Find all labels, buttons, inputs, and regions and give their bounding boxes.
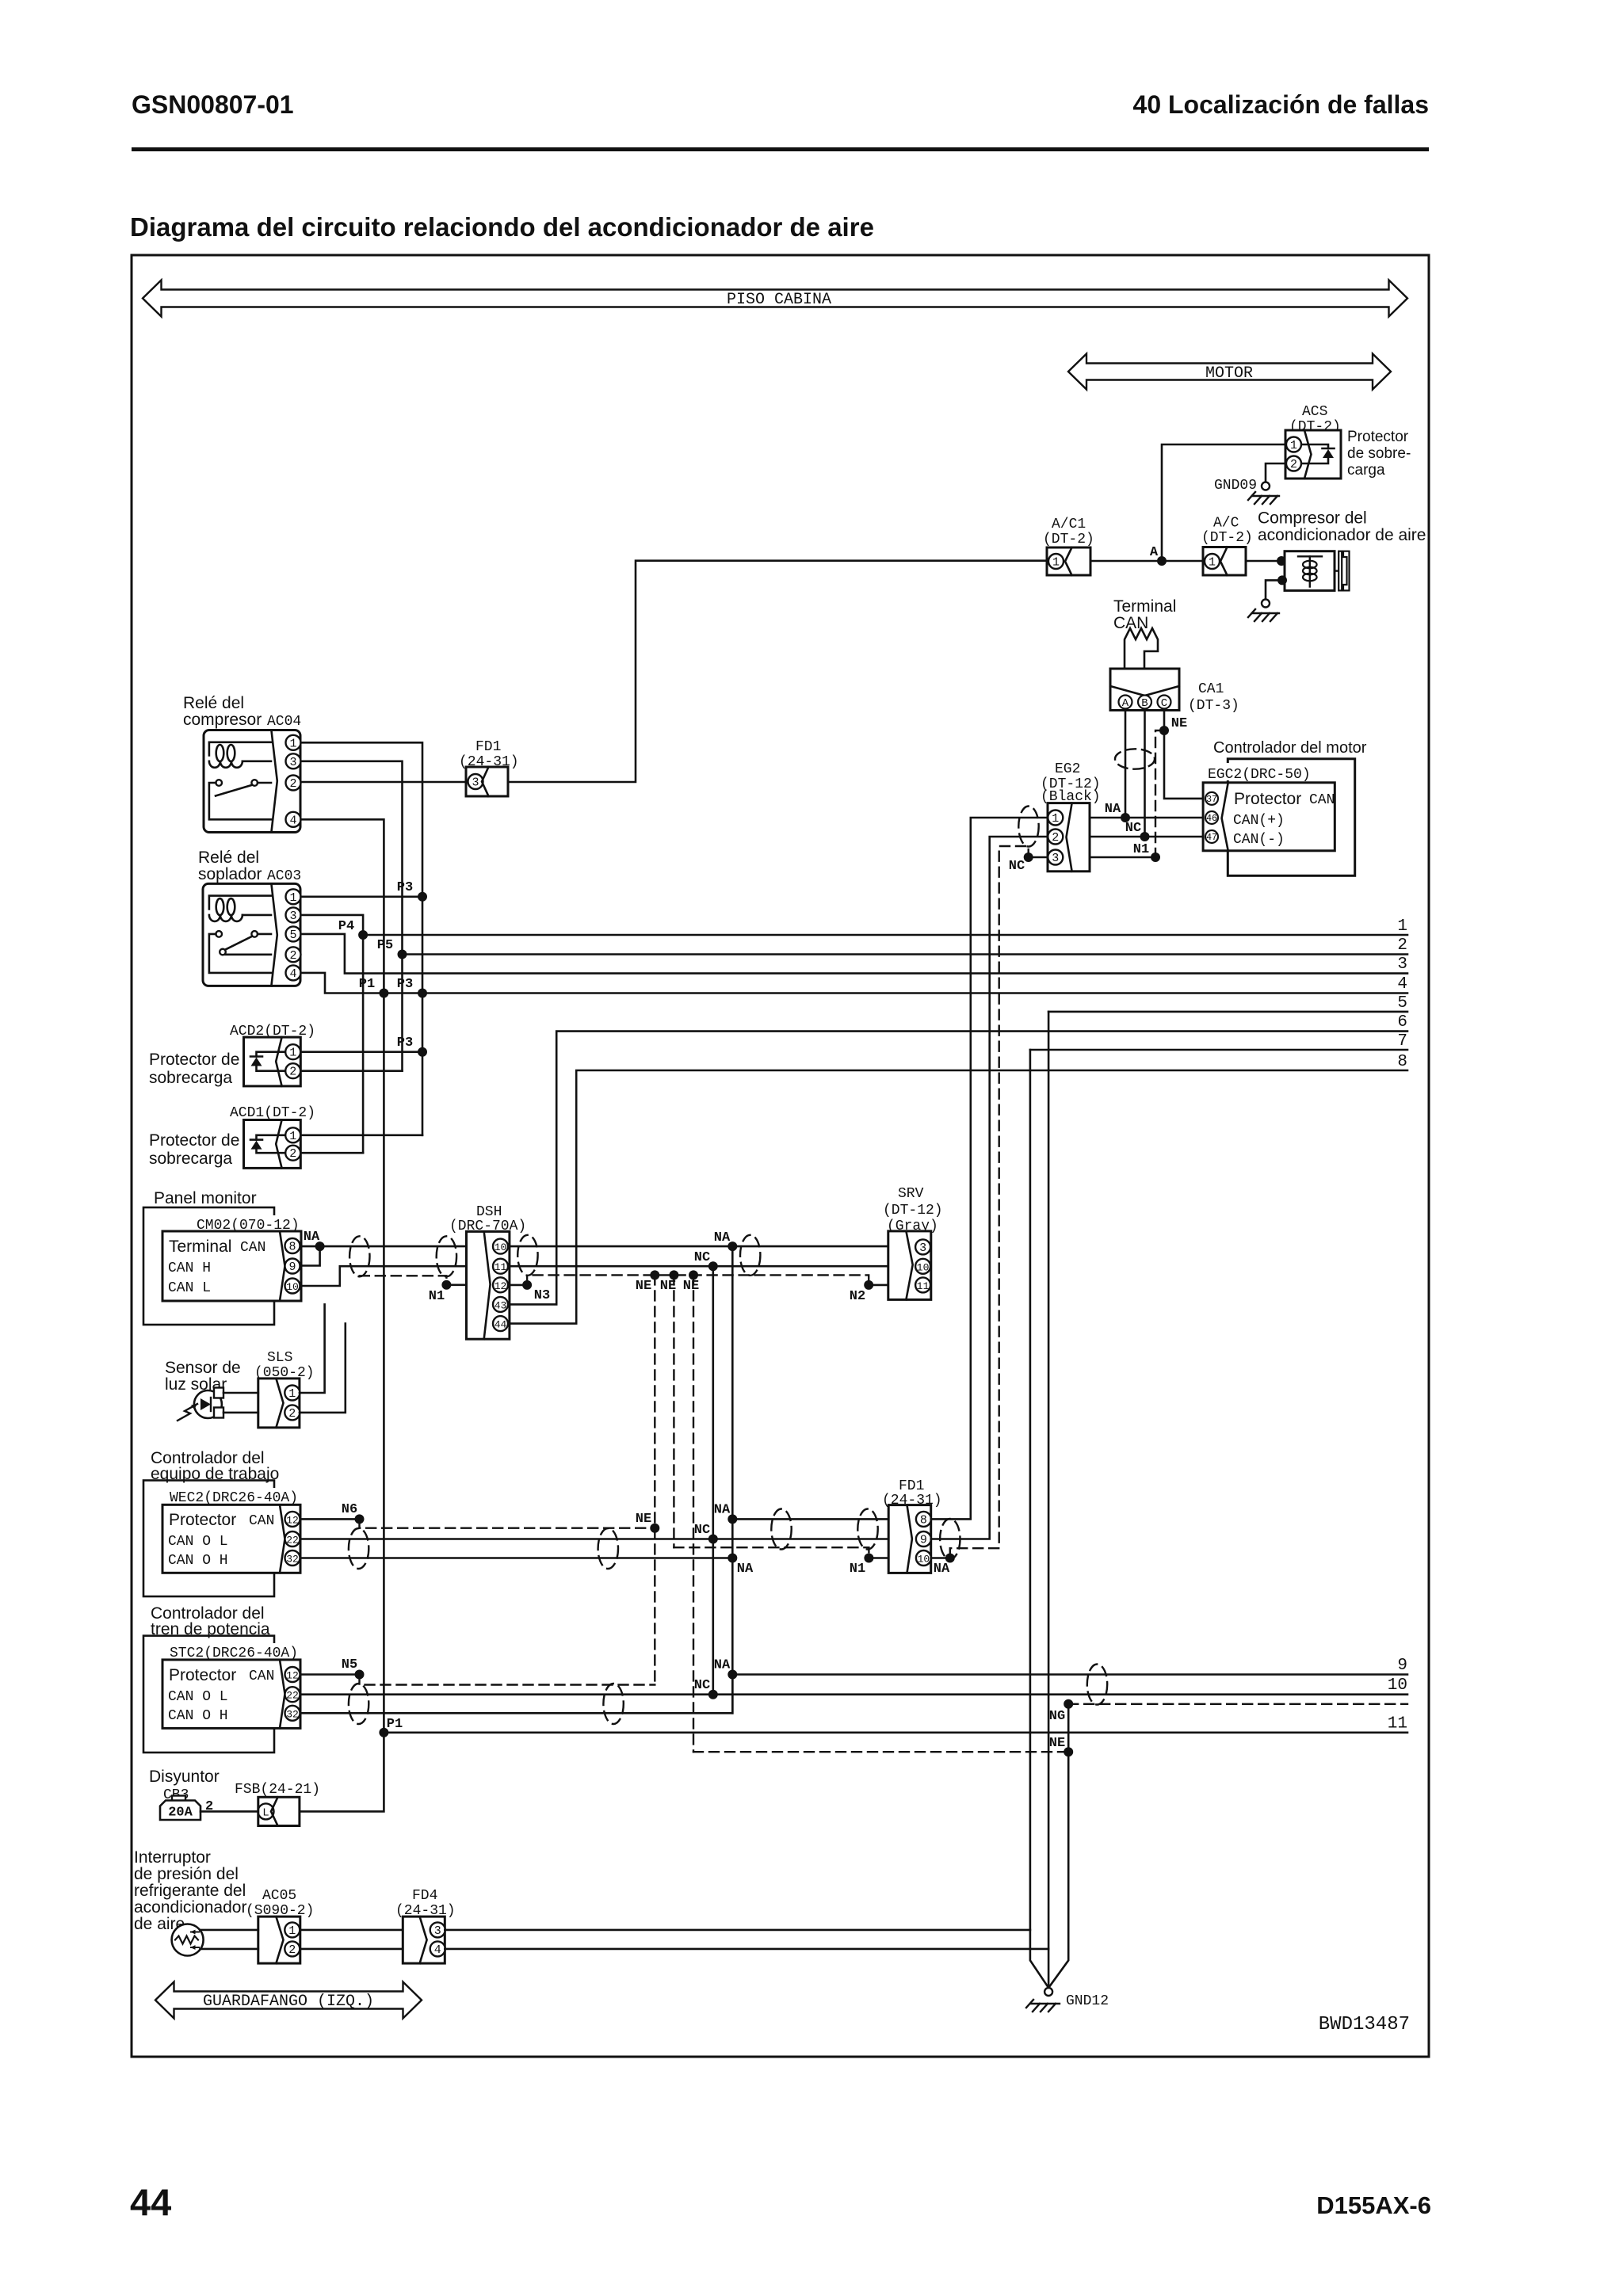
svg-text:3: 3 xyxy=(434,1924,441,1938)
connector ACD1 xyxy=(244,1120,301,1169)
connector FD4 xyxy=(403,1917,445,1963)
junction NE bottom xyxy=(1064,1747,1073,1756)
AC04 pin 3 xyxy=(286,753,301,769)
wire CM02 pin9 stub to NA xyxy=(301,1246,320,1265)
svg-text:10: 10 xyxy=(495,1241,507,1253)
wire line 1 from P4 xyxy=(363,934,1407,936)
svg-text:4: 4 xyxy=(1397,975,1407,994)
svg-text:FSB(24-21): FSB(24-21) xyxy=(235,1782,320,1798)
connector AC05 xyxy=(258,1917,300,1963)
svg-text:2: 2 xyxy=(1052,831,1059,845)
junction NA at WEC2 row xyxy=(727,1554,737,1563)
svg-text:1: 1 xyxy=(1209,556,1216,570)
svg-text:AC03: AC03 xyxy=(267,868,301,884)
wire N1 to FD1 pin10 xyxy=(869,1557,888,1559)
WEC2 pin 12 xyxy=(285,1512,300,1527)
EGC2 pin 46 xyxy=(1205,811,1218,824)
svg-text:Protector: Protector xyxy=(1347,429,1409,445)
connector A/C xyxy=(1203,547,1246,576)
shield ellipse STC2 mid xyxy=(603,1684,623,1724)
svg-text:SRV: SRV xyxy=(898,1186,924,1202)
node A xyxy=(1157,556,1167,566)
svg-text:A: A xyxy=(1122,697,1129,710)
svg-text:1: 1 xyxy=(1052,556,1060,570)
shield dashed NE drop 2 xyxy=(673,1275,674,1547)
svg-text:CAN O H: CAN O H xyxy=(168,1708,228,1724)
shield dashed EG2 drop xyxy=(950,846,1025,1555)
svg-text:de sobre-: de sobre- xyxy=(1347,445,1411,462)
connector DSH xyxy=(467,1231,510,1339)
SRV pin 11 xyxy=(915,1277,930,1292)
svg-text:1: 1 xyxy=(288,1924,296,1938)
ground GND09 xyxy=(1248,482,1279,505)
svg-text:NC: NC xyxy=(1125,821,1141,836)
svg-text:P1: P1 xyxy=(387,1717,403,1732)
junction NA at EG2 row xyxy=(1121,813,1130,822)
svg-text:P5: P5 xyxy=(377,938,393,953)
shield ellipse WEC2 mid xyxy=(598,1528,618,1569)
connector SLS xyxy=(258,1379,300,1428)
svg-text:CAN(-): CAN(-) xyxy=(1233,832,1285,848)
svg-text:1: 1 xyxy=(289,737,296,750)
vertical NA bus xyxy=(731,1246,734,1713)
svg-text:10: 10 xyxy=(918,1554,930,1566)
svg-text:N1: N1 xyxy=(429,1289,445,1304)
AC03 pin 3 xyxy=(286,907,301,923)
svg-text:4: 4 xyxy=(289,814,296,827)
junction NA right of FD1 xyxy=(945,1554,955,1563)
svg-text:C: C xyxy=(1161,697,1167,710)
svg-text:soplador: soplador xyxy=(198,865,262,883)
svg-text:11: 11 xyxy=(495,1261,507,1273)
svg-text:NA: NA xyxy=(1105,802,1121,817)
DSH pin 10 xyxy=(493,1239,508,1254)
svg-text:(DT-2): (DT-2) xyxy=(1043,532,1094,547)
shield dashed stub NC to ellipse xyxy=(1027,846,1029,857)
wire CB3 to FSB xyxy=(200,1810,258,1813)
svg-text:1: 1 xyxy=(289,1047,296,1060)
svg-text:NE: NE xyxy=(1049,1736,1065,1751)
shield dashed NE drop 3 xyxy=(693,1275,694,1752)
box WEC2 outline xyxy=(143,1481,274,1597)
pressure switch symbol xyxy=(172,1924,204,1956)
connector FD1 top xyxy=(466,767,508,796)
shield ellipse CM02-DSH 1 xyxy=(349,1236,369,1276)
svg-text:1: 1 xyxy=(288,1387,296,1401)
svg-text:ACS: ACS xyxy=(1302,404,1327,420)
svg-text:DSH: DSH xyxy=(476,1204,502,1220)
junction NC at EG2 xyxy=(1024,852,1033,862)
wire EG2 pin3 to NC stub xyxy=(1029,856,1048,859)
svg-text:12: 12 xyxy=(286,1514,299,1526)
diagram frame xyxy=(132,255,1429,2057)
junction NE at CA1 xyxy=(1159,726,1169,735)
svg-text:N5: N5 xyxy=(342,1657,357,1672)
wire line 11 xyxy=(384,1732,1407,1734)
svg-text:6: 6 xyxy=(1397,1013,1407,1032)
wire FSB to P1 riser xyxy=(300,1733,384,1812)
wire NA to FD1 pin8 xyxy=(732,1518,888,1520)
wire STC2 pin12 to N5 xyxy=(300,1673,360,1676)
wire AC03 pin4 to line 4 xyxy=(301,973,1408,994)
AC05 pin 1 xyxy=(285,1922,300,1938)
svg-text:A/C1: A/C1 xyxy=(1052,517,1086,532)
connector STC2 xyxy=(162,1660,300,1729)
svg-text:3: 3 xyxy=(472,776,479,790)
svg-text:Sensor de: Sensor de xyxy=(165,1359,241,1377)
label STC2(DRC26-40A) xyxy=(166,1643,309,1659)
ACS pin 2 xyxy=(1286,456,1301,472)
CM02 pin 8 xyxy=(285,1238,300,1254)
EG2 pin 2 xyxy=(1048,830,1063,845)
shield dashed CA1 NE to N1 xyxy=(1155,730,1164,857)
wire AC04 pin3 to P5 bus xyxy=(301,761,403,1071)
connector CA1 xyxy=(1110,669,1179,711)
ground compressor xyxy=(1248,600,1279,622)
svg-text:Terminal: Terminal xyxy=(169,1238,231,1256)
svg-text:1: 1 xyxy=(1397,917,1407,936)
DSH pin 12 xyxy=(493,1277,508,1292)
svg-text:8: 8 xyxy=(1397,1053,1407,1071)
svg-text:B: B xyxy=(1141,697,1148,710)
header rule xyxy=(132,147,1429,151)
svg-text:Protector: Protector xyxy=(169,1511,236,1529)
svg-text:de presión del: de presión del xyxy=(134,1865,239,1883)
svg-text:4: 4 xyxy=(434,1943,441,1957)
svg-text:Protector de: Protector de xyxy=(149,1051,239,1069)
connector EGC2 xyxy=(1203,783,1335,851)
ground GND12 xyxy=(1026,1988,1109,2012)
svg-text:2: 2 xyxy=(289,777,296,791)
AC05 pin 2 xyxy=(285,1941,300,1957)
svg-text:FD1: FD1 xyxy=(475,739,501,755)
wire SLS pin2 to DSH pin44 xyxy=(300,1324,346,1413)
svg-text:Diagrama del circuito relacion: Diagrama del circuito relaciondo del aco… xyxy=(130,212,874,242)
A/C pin 1 xyxy=(1205,554,1220,570)
svg-text:2: 2 xyxy=(289,1147,296,1161)
wire DSH pin12 to N3 xyxy=(510,1284,527,1287)
svg-text:BWD13487: BWD13487 xyxy=(1319,2014,1410,2035)
svg-text:9: 9 xyxy=(920,1534,927,1547)
wire ACS pin1 to node A riser xyxy=(1162,444,1285,561)
shield ellipse FD1 left 2 xyxy=(857,1509,877,1550)
wire AC03 pin5 to line 3 xyxy=(301,934,1408,974)
wire ACS pin2 to GND09 xyxy=(1266,463,1285,482)
svg-text:1: 1 xyxy=(289,891,296,905)
junction NE at WEC2 row xyxy=(650,1524,659,1533)
wire ACD2 pin2 to P5 bus end xyxy=(300,1070,402,1072)
svg-text:CAN O L: CAN O L xyxy=(168,1534,228,1550)
wire ACD1 pin2 to P4 bus end xyxy=(300,1152,363,1154)
wire line 5 xyxy=(1048,1011,1407,1013)
shield dashed N5 row xyxy=(360,1675,655,1685)
svg-text:Panel monitor: Panel monitor xyxy=(154,1189,257,1207)
shield ellipse FD1 left xyxy=(771,1509,791,1550)
svg-text:3: 3 xyxy=(1052,852,1059,865)
SRV pin 3 xyxy=(915,1239,930,1255)
label EGC2(DRC-50) xyxy=(1201,763,1312,780)
label CM02(070-12) xyxy=(192,1215,298,1230)
shield ellipse WEC2 exit xyxy=(349,1528,369,1569)
wire EG2 pin3 right to N1 xyxy=(1090,856,1155,859)
svg-text:Relé del: Relé del xyxy=(183,694,244,712)
DSH pin 44 xyxy=(493,1316,508,1331)
sun sensor symbol xyxy=(178,1388,223,1421)
svg-text:SLS: SLS xyxy=(267,1350,292,1366)
wire FD1 to A/C1 xyxy=(508,561,1047,782)
PISO CABINA arrow xyxy=(143,280,1407,317)
svg-text:22: 22 xyxy=(286,1690,299,1702)
STC2 pin 32 xyxy=(285,1706,300,1721)
svg-text:2: 2 xyxy=(1397,936,1407,955)
svg-text:Protector: Protector xyxy=(169,1666,236,1684)
vertical NC bus xyxy=(712,1266,714,1695)
svg-text:NA: NA xyxy=(304,1230,320,1245)
AC03 pin 4 xyxy=(286,965,301,981)
svg-text:CAN O L: CAN O L xyxy=(168,1689,228,1705)
WEC2 pin 32 xyxy=(285,1550,300,1566)
wire AC04 pin4 to P1 bus xyxy=(301,819,384,1733)
svg-text:NA: NA xyxy=(714,1230,731,1245)
svg-text:GUARDAFANGO (IZQ.): GUARDAFANGO (IZQ.) xyxy=(203,1993,374,2011)
svg-text:NC: NC xyxy=(694,1678,710,1693)
wire FD1 pin9 to EG2 pin2 riser xyxy=(931,837,1048,1539)
EG2 pin 3 xyxy=(1048,850,1063,866)
svg-text:3: 3 xyxy=(919,1241,926,1255)
shield ellipse FD1 right xyxy=(940,1519,960,1559)
wire AC03 pin1 to P3 junction xyxy=(301,896,423,898)
svg-text:3: 3 xyxy=(1397,955,1407,974)
svg-text:compresor: compresor xyxy=(183,711,262,729)
svg-text:2: 2 xyxy=(289,949,296,963)
svg-text:CAN: CAN xyxy=(240,1240,265,1256)
junction NC at EG2 row xyxy=(1140,832,1150,841)
svg-text:10: 10 xyxy=(286,1281,299,1293)
svg-text:37: 37 xyxy=(1206,795,1217,805)
junction NE 1 xyxy=(650,1270,659,1280)
breaker CB3 xyxy=(160,1796,200,1821)
wire DSH pin44 to line 8 xyxy=(510,1070,1407,1324)
svg-text:CAN L: CAN L xyxy=(168,1280,211,1296)
FD4 pin 4 xyxy=(430,1941,445,1957)
AC04 pin 2 xyxy=(286,776,301,791)
SRV pin 10 xyxy=(915,1259,930,1274)
relay AC04 xyxy=(204,730,300,833)
wire AC04 pin1 to P3 bus xyxy=(301,742,423,1135)
junction N5 xyxy=(355,1670,365,1680)
SLS pin 1 xyxy=(285,1386,300,1402)
wire CA1 A to NA xyxy=(1125,711,1127,818)
shield dashed N6 to NE xyxy=(360,1519,655,1527)
shield dashed CM02-DSH xyxy=(360,1276,447,1285)
box panel monitor outline xyxy=(143,1207,274,1325)
svg-text:NA: NA xyxy=(714,1658,731,1673)
svg-text:GSN00807-01: GSN00807-01 xyxy=(132,90,294,119)
svg-text:CAN: CAN xyxy=(1309,792,1335,808)
ACD1 pin 1 xyxy=(285,1127,300,1143)
svg-text:FD4: FD4 xyxy=(412,1888,437,1904)
shield ellipse STC2 exit xyxy=(349,1684,369,1724)
svg-text:NA: NA xyxy=(714,1503,731,1518)
svg-text:CAN: CAN xyxy=(249,1513,274,1529)
junction N1 at DSH left xyxy=(441,1280,451,1290)
wire NG-NE to GND12 xyxy=(1048,1704,1068,1988)
junction NC at WEC2 row xyxy=(708,1535,718,1544)
wire STC2 pin32 riser to NA line 9 xyxy=(300,1675,732,1714)
vertical line5 to GND12 xyxy=(1048,1012,1050,1989)
GUARDAFANGO (IZQ.) arrow xyxy=(155,1982,422,2019)
wire FD1 pin8 to EG2 pin1 riser xyxy=(931,818,1048,1519)
svg-text:2: 2 xyxy=(288,1943,296,1957)
junction NE 2 xyxy=(669,1270,678,1280)
svg-text:L: L xyxy=(262,1806,269,1819)
AC03 pin 5 xyxy=(286,926,301,942)
AC04 pin 4 xyxy=(286,812,301,828)
junction P1 upper xyxy=(379,989,388,998)
svg-text:N1: N1 xyxy=(1133,842,1149,857)
junction NG xyxy=(1064,1699,1073,1709)
dashed NE bottom row xyxy=(693,1751,1068,1753)
svg-text:(DT-2): (DT-2) xyxy=(1201,530,1253,546)
svg-text:N3: N3 xyxy=(534,1288,550,1303)
CA1 pin C xyxy=(1158,696,1171,711)
ACD2 pin 2 xyxy=(285,1063,300,1079)
wire DSH pin11 to SRV pin10 xyxy=(510,1265,888,1268)
DSH pin 11 xyxy=(493,1259,508,1274)
box EGC2 outline xyxy=(1228,759,1354,876)
junction N6 xyxy=(355,1514,365,1524)
svg-text:EGC2(DRC-50): EGC2(DRC-50) xyxy=(1208,767,1311,783)
compressor of air conditioner xyxy=(1285,551,1350,591)
FD4 pin 3 xyxy=(430,1922,445,1938)
compressor lower dot to ground xyxy=(1277,575,1287,585)
connector FD1 mid xyxy=(888,1505,931,1573)
relay AC03 xyxy=(203,883,300,986)
svg-text:NA: NA xyxy=(737,1562,754,1577)
svg-text:N1: N1 xyxy=(850,1562,865,1577)
svg-text:NC: NC xyxy=(1009,859,1025,874)
FD1 pin 10 xyxy=(916,1550,931,1566)
svg-text:2: 2 xyxy=(1290,458,1297,471)
svg-text:20A: 20A xyxy=(168,1806,193,1821)
connector ACS xyxy=(1285,430,1341,479)
wire AC05 to FD4 xyxy=(300,1929,403,1932)
DSH pin 43 xyxy=(493,1297,508,1312)
dashed NG line xyxy=(1068,1703,1407,1705)
junction N2 xyxy=(864,1280,873,1290)
svg-text:5: 5 xyxy=(289,929,296,942)
wire ACD2 pin1 to P3 junction xyxy=(300,1051,422,1053)
wire line 7 xyxy=(1030,1049,1407,1051)
svg-text:D155AX-6: D155AX-6 xyxy=(1316,2191,1431,2219)
svg-text:1: 1 xyxy=(289,1130,296,1143)
shield ellipse lines 9-10 xyxy=(1087,1665,1107,1705)
svg-text:Disyuntor: Disyuntor xyxy=(149,1768,220,1786)
junction P5 xyxy=(398,950,407,959)
EGC2 pin 47 xyxy=(1205,830,1218,843)
wire CM02 pin8 CAN to DSH pin10 xyxy=(301,1245,467,1248)
AC03 pin 1 xyxy=(286,889,301,905)
shield dashed DSH to SRV xyxy=(527,1275,869,1285)
wire line 9 xyxy=(732,1673,1407,1676)
svg-text:N2: N2 xyxy=(850,1289,865,1304)
wire EG2 pin1 to NA row xyxy=(1090,817,1203,819)
shield ellipse EG2 xyxy=(1018,807,1038,847)
connector A/C1 xyxy=(1047,547,1090,575)
wire A/C1 to A/C xyxy=(1090,560,1203,563)
junction N1 at FD1 left xyxy=(864,1554,873,1563)
svg-text:NC: NC xyxy=(694,1523,710,1538)
vertical line7 to GND12 funnel xyxy=(1030,1050,1048,1988)
svg-text:5: 5 xyxy=(1397,994,1407,1013)
svg-text:10: 10 xyxy=(1388,1676,1407,1695)
fuse connector FSB xyxy=(258,1797,300,1825)
wire DSH pin43 to line 6 xyxy=(510,1032,1407,1305)
ACD1 pin 2 xyxy=(285,1146,300,1161)
connector CM02 xyxy=(162,1231,301,1301)
diode ACS xyxy=(1301,444,1335,463)
shield dashed row to N1 xyxy=(674,1547,869,1558)
wire WEC2 pin32 CAN O H to NA xyxy=(300,1557,732,1559)
svg-text:P3: P3 xyxy=(397,1035,413,1051)
svg-text:CAN(+): CAN(+) xyxy=(1233,813,1285,829)
shield ellipse CA1 xyxy=(1115,749,1155,769)
junction NC right of DSH xyxy=(708,1261,718,1271)
svg-text:EG2: EG2 xyxy=(1055,761,1080,777)
svg-text:A/C: A/C xyxy=(1213,516,1239,532)
svg-text:CAN: CAN xyxy=(249,1669,274,1684)
wire sun sensor to SLS xyxy=(223,1392,258,1394)
svg-text:1: 1 xyxy=(1052,812,1059,826)
wire EG2 pin2 to NC row xyxy=(1090,836,1203,838)
svg-text:32: 32 xyxy=(286,1708,299,1720)
svg-text:47: 47 xyxy=(1206,833,1217,843)
svg-text:AC04: AC04 xyxy=(267,714,301,730)
wire FD4 pin3 to GND12 funnel xyxy=(445,1929,1030,1932)
wire FD4 pin4 to GND12 funnel xyxy=(445,1948,1048,1951)
svg-text:40 Localización de fallas: 40 Localización de fallas xyxy=(1133,90,1429,119)
CM02 pin 9 xyxy=(285,1259,300,1275)
svg-text:AC05: AC05 xyxy=(262,1888,296,1904)
svg-text:11: 11 xyxy=(917,1280,930,1292)
svg-text:11: 11 xyxy=(1388,1715,1407,1733)
svg-text:1: 1 xyxy=(1290,439,1297,452)
connector SRV xyxy=(888,1231,931,1300)
wire line 2 from P5 xyxy=(403,953,1408,955)
svg-text:acondicionador: acondicionador xyxy=(134,1898,246,1917)
A/C1 pin 1 xyxy=(1048,554,1064,570)
junction P3 upper xyxy=(418,892,427,902)
label WEC2(DRC26-40A) xyxy=(166,1488,309,1504)
svg-text:acondicionador de aire: acondicionador de aire xyxy=(1258,526,1426,544)
wire AC03 pin3 to P4 bus xyxy=(301,915,364,1153)
wire FD1 pin10 to NA stub xyxy=(931,1557,950,1559)
wire ACD1 pin1 to P3 bus end xyxy=(300,1135,422,1137)
svg-text:GND12: GND12 xyxy=(1066,1993,1109,2009)
svg-text:2: 2 xyxy=(289,1066,296,1079)
MOTOR arrow xyxy=(1068,354,1391,390)
svg-text:46: 46 xyxy=(1206,814,1217,824)
svg-text:9: 9 xyxy=(288,1261,296,1274)
svg-text:8: 8 xyxy=(288,1241,296,1254)
svg-text:Relé del: Relé del xyxy=(198,849,259,867)
STC2 pin 22 xyxy=(285,1687,300,1702)
FD1 pin 8 xyxy=(916,1512,931,1527)
junction N3 xyxy=(522,1280,532,1290)
svg-text:2: 2 xyxy=(288,1407,296,1421)
connector WEC2 xyxy=(162,1505,300,1573)
svg-text:sobrecarga: sobrecarga xyxy=(149,1069,232,1087)
